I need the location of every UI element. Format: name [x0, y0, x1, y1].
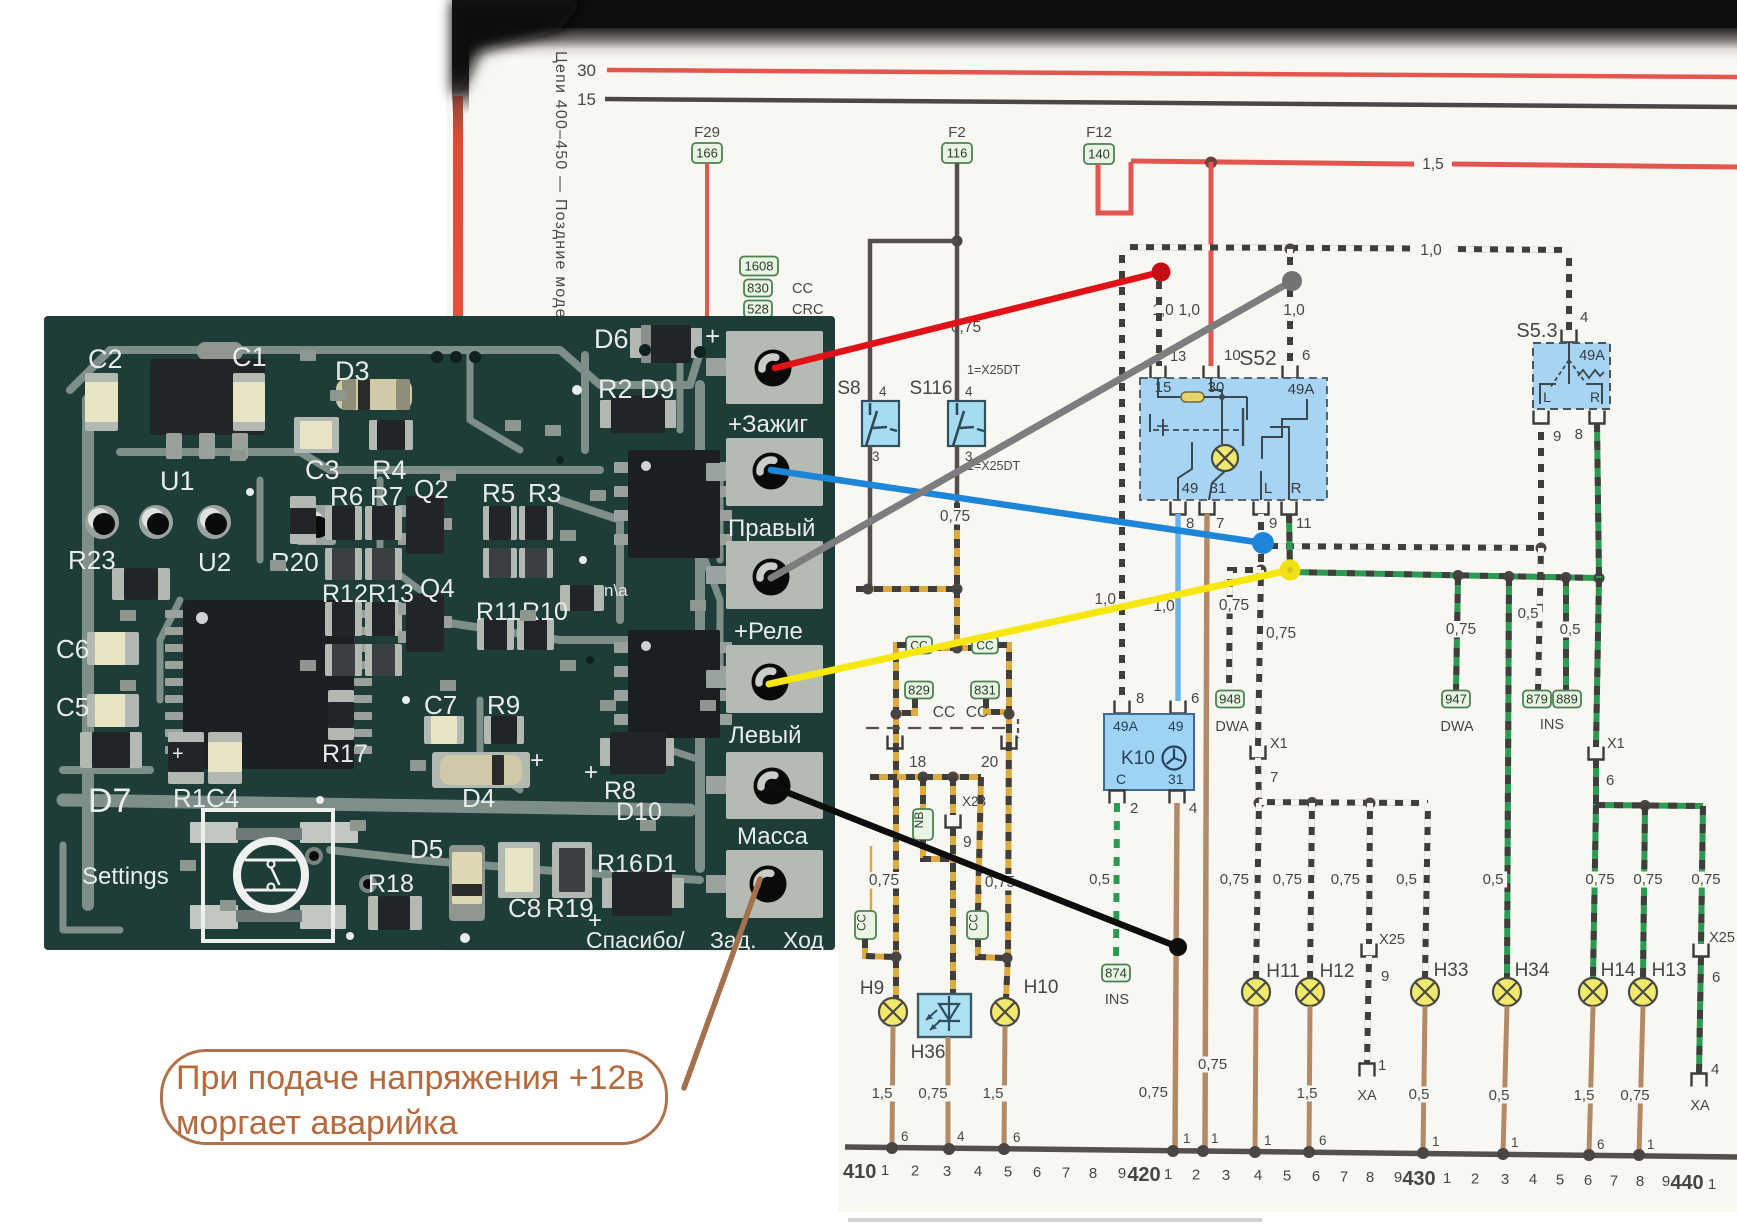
wire green hatched horizontal [1290, 572, 1599, 578]
resistor R9 [484, 716, 524, 744]
wire to H11 [1256, 803, 1259, 978]
connector 879 [1523, 691, 1551, 708]
wire X23 down to H36 [950, 827, 956, 998]
resistor R19 [552, 842, 592, 898]
capacitor C5 [87, 694, 139, 727]
wire hatched down to CC row [954, 589, 960, 649]
diode D5 [449, 845, 485, 921]
pin 4 connector [1170, 791, 1185, 804]
resistors R6 R7 [325, 506, 362, 540]
diode D6 [630, 328, 644, 358]
wire H10 to bus [1004, 1026, 1005, 1150]
K10 clock symbol [1163, 747, 1186, 770]
connector 1608 [740, 257, 778, 276]
S52 internal circuit [1158, 378, 1181, 397]
wire link +Реле (gray) [771, 281, 1292, 578]
LED module H36 [918, 994, 971, 1037]
wire green long to H34 [1507, 577, 1509, 978]
transistor Q2 [406, 496, 444, 554]
wire light blue 49 to K10 [1175, 514, 1181, 701]
pin 6 connector [1171, 701, 1186, 714]
wire green to H14 [1593, 805, 1596, 978]
capacitor C4 [208, 732, 242, 784]
wire hatched horizontal 776 [870, 774, 981, 780]
wire green to H13 [1643, 806, 1645, 978]
wire hatched 1,0 top bus [1122, 247, 1412, 249]
wire hatched horizontal to S5.3 L [1262, 546, 1541, 548]
resistor block bottom-left [80, 732, 142, 768]
op-amp U3 (SOIC-8 upper) [614, 462, 630, 473]
pin 49 connector [1171, 502, 1186, 515]
wire thin yellow option [870, 846, 873, 912]
wire H12 to bus [1309, 1006, 1310, 1152]
PCB module board [44, 316, 835, 950]
wire hatched down to S52 pin 6 [1287, 249, 1293, 366]
wire H11 to bus [1255, 1006, 1256, 1152]
pin R connector [1590, 411, 1605, 424]
wire CC lower-left stub [865, 939, 895, 957]
wire hatched down to S5.3 pin 4 [1566, 250, 1572, 330]
connector X1 right [1589, 747, 1604, 760]
wire green to 947 [1456, 576, 1458, 691]
pin 31 connector [1200, 502, 1215, 515]
capacitor C1 [233, 373, 265, 431]
dashed option divider [866, 727, 1012, 729]
wire from CC left down-left [896, 645, 906, 998]
capacitor C6 [87, 632, 139, 665]
settings jumper field [190, 822, 238, 843]
connector 889 [1553, 691, 1581, 708]
junction H11 branch [1254, 798, 1265, 809]
page top dark band [452, 0, 1737, 58]
op-amp U4 (SOIC-8 lower) [614, 642, 630, 653]
wire link Правый (blue) [771, 470, 1263, 543]
wire below NB [923, 840, 953, 859]
wire jog to 948 [1229, 570, 1261, 691]
capacitor C8 [498, 842, 540, 898]
wire H13 to bus [1639, 1006, 1643, 1155]
connector XA middle [1360, 1064, 1375, 1077]
wire from CC right down-right [998, 645, 1009, 998]
wire S116 pin3 down (gray then yellow hatch) [955, 446, 960, 505]
wire branch to S8 [870, 241, 957, 403]
wire X23 branch [950, 777, 956, 815]
mounting holes [296, 505, 336, 545]
pin L connector [1254, 502, 1269, 515]
diode D9 [600, 400, 614, 428]
wire brown 31 to ground bus [1205, 514, 1207, 1151]
diode D10 / R8 [600, 738, 614, 766]
pin 2 connector [1110, 791, 1125, 804]
terminal block column [726, 331, 823, 404]
pin 6 connector [1283, 366, 1298, 379]
connector X25 right [1694, 944, 1709, 957]
pin 4 connector [1562, 330, 1577, 343]
junction red bus / S52 pin10 [1205, 157, 1217, 169]
resistor R1 [168, 732, 204, 784]
page left red stripe [453, 96, 463, 318]
wire green right end down [1701, 806, 1703, 944]
connector X1 (turn circuit) [1251, 746, 1266, 759]
wire NB branch [920, 777, 926, 810]
S52 internal lamp [1212, 445, 1238, 471]
capacitor C2 [85, 373, 118, 431]
wire red 1,5 horizontal [1131, 161, 1414, 164]
wire L hatched down [1258, 514, 1264, 570]
wire hatched horizontal lamp feed [1259, 802, 1428, 803]
wire green to 889 [1563, 577, 1569, 691]
switch S52 body [1140, 378, 1327, 500]
wire F2 down (gray) [955, 163, 960, 403]
pin 13 connector [1151, 366, 1166, 379]
connector CC lower-left [855, 911, 876, 939]
connector 528 [744, 301, 772, 318]
resistor R20 [290, 496, 316, 544]
diode D1 [602, 878, 618, 908]
capacitor C3 [294, 417, 339, 453]
wire to H33 [1425, 803, 1428, 978]
wire 829 stub [897, 699, 915, 713]
wire hatched horizontal S8/S116 join [856, 586, 960, 592]
wire S8 pin3 down [868, 446, 873, 591]
wire 831 stub [986, 699, 1008, 712]
wire green R down [1597, 423, 1599, 578]
pin L connector [1534, 411, 1549, 424]
connector X25 middle [1362, 944, 1377, 957]
ground bus 410/420/430/440 [845, 1147, 1737, 1157]
wire link +Зажиг (red) [775, 272, 1161, 368]
page left edge wedge [452, 0, 469, 114]
wire H9 to bus [892, 1026, 893, 1149]
capacitor C7 [424, 716, 464, 744]
wire H33 to bus [1423, 1006, 1425, 1153]
vias [572, 385, 582, 395]
connector 831 [971, 682, 999, 699]
wire hatched from S5.3 L to 879 [1538, 424, 1544, 548]
wire CC row horizontal [932, 645, 972, 651]
misc pads [300, 350, 316, 361]
pin 18 connector [888, 736, 903, 749]
connector 947 [1442, 691, 1470, 708]
connector CC lower-right [967, 911, 988, 939]
connector 874 [1102, 965, 1130, 982]
wire F29 down (red) [705, 163, 709, 318]
resistors R12 R13 [325, 602, 362, 636]
diode D3 [336, 379, 412, 410]
wire PCB traces [70, 350, 700, 390]
scanned page background [446, 0, 1737, 952]
wire link Зад.Ход to note (brown) [684, 879, 760, 1088]
resistor R17 [328, 690, 354, 740]
wire to H12 [1310, 803, 1312, 978]
terminal holes [755, 350, 792, 387]
wire F12 jog (red) [1098, 162, 1131, 213]
wire right branch down [978, 777, 981, 911]
wire R green down from S52 [1289, 514, 1290, 571]
wire green/white K10 pin2 to 874 [1116, 803, 1117, 965]
wire hatched left vertical to K10 pin 8 [1119, 247, 1125, 701]
connector NB [913, 809, 933, 840]
junction F2/S8 [952, 236, 963, 247]
pin 8 connector [1115, 701, 1130, 714]
connector 830 [744, 280, 772, 297]
connector CC right [972, 637, 998, 654]
connector XA right [1692, 1074, 1707, 1087]
transistor Q4 [406, 594, 444, 652]
wire green horizontal right [1596, 805, 1703, 806]
diode D4 [432, 752, 530, 788]
wire brown K10 pin4 to bus [1175, 803, 1177, 1151]
junction hatched bus / S52 pin 6 [1285, 244, 1296, 255]
wire link Масса (black) [771, 786, 1178, 947]
resistors R11 R10 [477, 618, 514, 650]
note bubble [160, 1049, 668, 1145]
wire H14 to bus [1589, 1006, 1593, 1154]
wire H34 to bus [1503, 1006, 1507, 1154]
pin 10 connector [1204, 366, 1219, 379]
resistor near n\a [560, 585, 604, 611]
voltage regulator U1 [197, 342, 243, 360]
wire link Левый (yellow) [769, 570, 1290, 684]
pin 20 connector [1002, 736, 1017, 749]
wire H36 to bus [946, 1037, 951, 1149]
resistor R18 [368, 896, 422, 930]
wire to pin 13 [1156, 273, 1162, 366]
resistor R4 [369, 420, 413, 450]
resistor R23 [112, 568, 170, 600]
connector 829 [905, 682, 933, 699]
resistors R5 R3 [483, 506, 517, 540]
connector 948 [1216, 691, 1244, 708]
connector CC left [906, 637, 932, 654]
wire to X25 middle [1369, 803, 1370, 944]
pin R connector [1282, 502, 1297, 515]
connector X23 [946, 815, 961, 828]
wire red down to S52 pin 10 [1209, 162, 1214, 366]
microcontroller U2 [165, 610, 183, 618]
